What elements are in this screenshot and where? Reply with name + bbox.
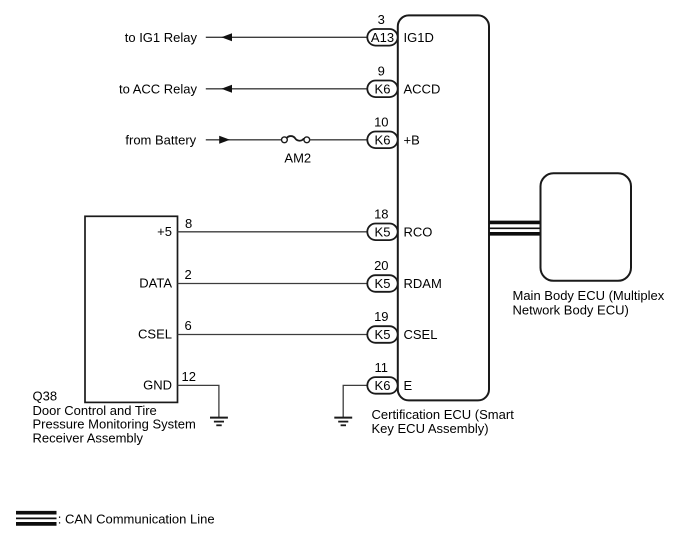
wire DATA to RDAM xyxy=(178,283,368,285)
connector pin K6 (ACCD) xyxy=(367,81,397,98)
connector pin K5 (CSEL) xyxy=(367,326,397,343)
svg-text:K6: K6 xyxy=(375,378,391,393)
svg-text:Receiver Assembly: Receiver Assembly xyxy=(33,431,144,446)
wire CSEL to CSEL xyxy=(178,334,368,336)
arrowhead from Battery (right) xyxy=(219,136,230,144)
connector pin K6 (+B) xyxy=(367,132,397,149)
wire +B row left segment xyxy=(206,139,282,141)
svg-text:Network Body ECU): Network Body ECU) xyxy=(513,303,629,318)
svg-text:20: 20 xyxy=(374,258,388,273)
svg-text:K6: K6 xyxy=(375,81,391,96)
connector pin K5 (RDAM) xyxy=(367,275,397,292)
svg-text:E: E xyxy=(404,378,413,393)
svg-text:10: 10 xyxy=(374,114,388,129)
connector pin A13 xyxy=(367,29,397,46)
wire E to ground xyxy=(343,385,367,417)
svg-text:A13: A13 xyxy=(371,30,394,45)
arrowhead to IG1 Relay (left) xyxy=(221,33,232,41)
svg-text:K5: K5 xyxy=(375,276,391,291)
svg-text:K6: K6 xyxy=(375,132,391,147)
fuse AM2 xyxy=(282,136,312,165)
svg-text:11: 11 xyxy=(375,360,389,375)
wire +B row right segment xyxy=(310,139,368,141)
svg-text:ACCD: ACCD xyxy=(404,82,441,97)
legend CAN symbol xyxy=(16,513,57,524)
box Q38 receiver assembly xyxy=(85,216,178,402)
svg-text:CSEL: CSEL xyxy=(404,327,438,342)
svg-text:RCO: RCO xyxy=(404,225,433,240)
svg-text:19: 19 xyxy=(374,309,388,324)
svg-text:CSEL: CSEL xyxy=(138,327,172,342)
svg-text:6: 6 xyxy=(185,318,192,333)
svg-text:RDAM: RDAM xyxy=(404,276,442,291)
wire +5 to RCO xyxy=(178,231,368,233)
svg-text:Certification ECU (Smart: Certification ECU (Smart xyxy=(372,407,515,422)
svg-text:+5: +5 xyxy=(157,224,172,239)
svg-text:GND: GND xyxy=(143,378,172,393)
svg-text:18: 18 xyxy=(374,206,388,221)
svg-text:Q38: Q38 xyxy=(33,389,58,404)
ground (Q38) xyxy=(210,418,228,426)
svg-text:12: 12 xyxy=(182,369,196,384)
ground (Certification ECU E) xyxy=(334,418,352,426)
svg-text:8: 8 xyxy=(185,216,192,231)
svg-text:+B: +B xyxy=(404,133,420,148)
wire IG1D row xyxy=(206,36,368,38)
svg-text:9: 9 xyxy=(378,63,385,78)
wire GND to ground xyxy=(178,385,219,417)
wire ACCD row xyxy=(206,88,368,90)
svg-text:: CAN Communication Line: : CAN Communication Line xyxy=(58,512,215,527)
svg-text:K5: K5 xyxy=(375,327,391,342)
svg-text:Pressure Monitoring System: Pressure Monitoring System xyxy=(33,417,196,432)
svg-text:3: 3 xyxy=(378,12,385,27)
arrowhead to ACC Relay (left) xyxy=(221,85,232,93)
CAN bus lines xyxy=(489,222,540,233)
svg-text:Key ECU Assembly): Key ECU Assembly) xyxy=(372,421,489,436)
svg-text:2: 2 xyxy=(185,267,192,282)
connector pin K6 (E) xyxy=(367,377,397,394)
svg-text:to IG1 Relay: to IG1 Relay xyxy=(125,30,198,45)
svg-text:K5: K5 xyxy=(375,224,391,239)
box Certification ECU xyxy=(398,15,489,400)
svg-text:IG1D: IG1D xyxy=(404,30,434,45)
svg-text:Main Body ECU (Multiplex: Main Body ECU (Multiplex xyxy=(513,288,665,303)
svg-text:from Battery: from Battery xyxy=(125,133,196,148)
svg-text:DATA: DATA xyxy=(139,276,172,291)
svg-text:to ACC Relay: to ACC Relay xyxy=(119,82,198,97)
box Main Body ECU xyxy=(541,173,632,280)
svg-text:AM2: AM2 xyxy=(284,151,311,166)
connector pin K5 (RCO) xyxy=(367,224,397,241)
